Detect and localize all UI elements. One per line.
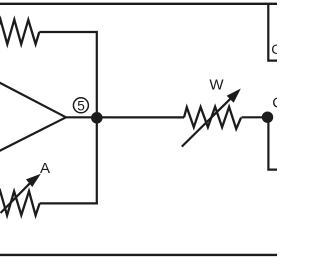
wire right L down	[268, 117, 279, 169]
wire R1 to corner	[39, 31, 97, 33]
wire W to right dot	[242, 116, 268, 118]
op-amp U1 tip	[0, 81, 66, 152]
wire bottom to A	[40, 202, 98, 204]
svg-text:W: W	[209, 77, 224, 94]
potentiometer W arrow	[182, 90, 240, 147]
node 5	[73, 98, 88, 114]
svg-text:C: C	[272, 94, 277, 111]
potentiometer A zigzag	[0, 191, 40, 215]
svg-text:C: C	[271, 41, 277, 57]
wire top rail	[0, 3, 279, 5]
wire vertical feedback	[96, 31, 98, 205]
resistor R1	[0, 20, 39, 45]
svg-text:A: A	[40, 160, 50, 177]
wire bottom rail	[0, 254, 279, 256]
svg-text:5: 5	[77, 99, 85, 114]
junction node 5 dot	[91, 112, 103, 124]
wire op-amp output	[66, 116, 184, 118]
potentiometer A arrow	[1, 175, 40, 213]
box U (cut at right edge)	[268, 4, 279, 61]
potentiometer W zigzag	[184, 107, 241, 129]
junction right dot	[262, 112, 273, 123]
